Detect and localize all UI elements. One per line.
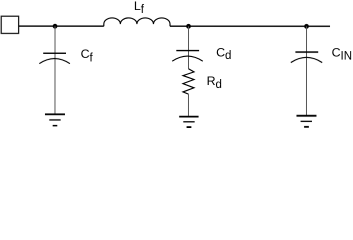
wire: resistor Rd to ground: [187, 94, 189, 116]
wire: node B to node C: [189, 25, 307, 27]
wire: node A down through Cf to ground: [54, 26, 56, 114]
capacitor CIN curved plate: [291, 57, 322, 62]
wire: node C down through CIN to ground: [305, 26, 307, 115]
capacitor CIN top plate: [295, 51, 318, 53]
node C (junction): [304, 24, 309, 29]
svg-text:Rd: Rd: [207, 74, 222, 91]
resistor Rd: [183, 69, 194, 94]
svg-text:Cf: Cf: [81, 47, 94, 64]
wire: node B down through Cd to resistor Rd: [187, 26, 189, 68]
capacitor Cf curved plate: [39, 58, 70, 63]
ground under CIN: [296, 116, 316, 127]
wire: box to node A: [19, 25, 55, 27]
capacitor Cf top plate: [43, 52, 66, 54]
wire: node A to inductor Lf: [55, 25, 104, 27]
wire: node C to right end: [307, 25, 331, 27]
node A (junction): [53, 24, 58, 29]
node B (junction): [186, 24, 191, 29]
capacitor Cd top plate: [176, 50, 199, 52]
svg-text:CIN: CIN: [332, 45, 352, 62]
svg-text:Lf: Lf: [134, 0, 145, 16]
capacitor Cd curved plate: [172, 56, 203, 61]
wire: inductor Lf to node B: [170, 25, 189, 27]
input terminal box: [1, 16, 18, 33]
ground under Rd: [179, 117, 198, 128]
svg-text:Cd: Cd: [216, 45, 231, 62]
inductor Lf: [104, 18, 170, 26]
ground under Cf: [45, 114, 65, 125]
